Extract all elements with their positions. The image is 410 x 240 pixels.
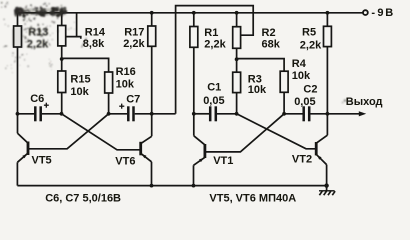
node L2: C7 left / R16 bottom bbox=[107, 112, 111, 116]
svg-text:2,2k: 2,2k bbox=[27, 39, 49, 51]
resistor R2 bbox=[235, 11, 239, 15]
node L1: C6 right / R15 bottom bbox=[60, 112, 64, 116]
wire: R13 bottom to VT5 collector bbox=[17, 47, 19, 133]
svg-text:R15: R15 bbox=[70, 74, 90, 86]
wire: cross-coupling L1 to VT6 base bbox=[62, 114, 141, 150]
resistor R4 bbox=[280, 71, 288, 92]
svg-text:C1: C1 bbox=[207, 81, 221, 93]
capacitor C7 bbox=[109, 113, 128, 115]
resistor R1 bbox=[192, 11, 196, 15]
wire: R2 junction to R4 top bbox=[237, 59, 285, 72]
node: R14 bottom junction bbox=[60, 57, 64, 61]
svg-text:VT1: VT1 bbox=[213, 155, 233, 167]
svg-text:VT2: VT2 bbox=[292, 154, 312, 166]
svg-text:2,2k: 2,2k bbox=[300, 39, 322, 51]
wire: cross-coupling R2p to VT2 base bbox=[237, 114, 317, 149]
svg-text:С6, С7 5,0/16В: С6, С7 5,0/16В bbox=[45, 193, 121, 205]
wire: cross-coupling R3p to VT1 base bbox=[205, 114, 284, 152]
transistor VT5 bbox=[27, 142, 30, 156]
resistor R3 bbox=[233, 72, 241, 92]
transistor VT1 bbox=[203, 144, 206, 158]
scan artifact marks bbox=[82, 38, 347, 103]
svg-text:2,2k: 2,2k bbox=[123, 38, 145, 50]
svg-text:2,2k: 2,2k bbox=[204, 39, 226, 51]
node: C6 left / VT5 collector bbox=[16, 112, 20, 116]
svg-text:R16: R16 bbox=[116, 66, 136, 78]
resistor R14 bbox=[60, 11, 64, 15]
svg-text:C2: C2 bbox=[303, 83, 317, 95]
svg-text:R17: R17 bbox=[124, 27, 144, 39]
svg-text:В: В bbox=[385, 7, 393, 19]
wire: bottom emitter rail bbox=[17, 185, 326, 187]
svg-text:R5: R5 bbox=[302, 27, 316, 39]
svg-text:10k: 10k bbox=[70, 86, 89, 98]
resistor R15 bbox=[58, 71, 66, 93]
wire: R17 bottom to VT6 collector bbox=[151, 46, 153, 136]
wire: tap from bus A to R14 body bbox=[66, 13, 77, 37]
svg-text:R2: R2 bbox=[262, 27, 276, 39]
node: output / C2 right on VT2 collector column bbox=[326, 112, 330, 116]
wire: R14 junction to R16 top bbox=[62, 58, 109, 72]
transistor VT2 bbox=[315, 142, 318, 155]
resistor R13 bbox=[17, 13, 19, 26]
transistor VT6 bbox=[139, 142, 142, 156]
svg-text:R14: R14 bbox=[85, 27, 106, 39]
terminal -9V bbox=[363, 10, 368, 15]
ground bbox=[326, 186, 328, 191]
svg-text:VT6: VT6 bbox=[115, 156, 135, 168]
svg-text:R4: R4 bbox=[292, 58, 307, 70]
wire: R5 bottom to VT2 collector bbox=[326, 47, 328, 136]
svg-text:-: - bbox=[371, 7, 375, 19]
resistor R5 bbox=[326, 11, 330, 15]
svg-text:68k: 68k bbox=[262, 39, 281, 51]
svg-text:C7: C7 bbox=[126, 94, 140, 106]
smudge noise top-left bbox=[1, 2, 77, 74]
svg-text:8,8k: 8,8k bbox=[83, 38, 105, 50]
node: C1 left / VT1 collector bbox=[192, 112, 196, 116]
label R13 value (smudged) bbox=[27, 26, 49, 50]
capacitor C6 bbox=[18, 113, 35, 115]
wire: output arrow bbox=[327, 113, 360, 115]
svg-text:10k: 10k bbox=[292, 70, 311, 82]
capacitor C1 bbox=[194, 113, 209, 115]
wire: R1 bottom to VT1 collector bbox=[193, 47, 195, 136]
node R2p: C1 right / R3 bottom bbox=[235, 112, 239, 116]
resistor R17 bbox=[150, 11, 154, 15]
svg-text:VT5, VT6 МП40А: VT5, VT6 МП40А bbox=[209, 192, 296, 204]
resistor R16 bbox=[105, 72, 113, 93]
capacitor C2 bbox=[284, 113, 302, 115]
svg-text:0,05: 0,05 bbox=[294, 96, 315, 108]
svg-text:9: 9 bbox=[377, 7, 383, 19]
svg-text:10k: 10k bbox=[248, 84, 267, 96]
wire: top -9V bus A bbox=[18, 12, 363, 14]
wire: cross-coupling L2 to VT5 base bbox=[28, 114, 109, 149]
svg-text:0,05: 0,05 bbox=[203, 95, 224, 107]
node: R2 bottom junction bbox=[235, 57, 239, 61]
wire: bus B from VT6 collector node to R2 tap bbox=[176, 6, 254, 114]
svg-text:R1: R1 bbox=[204, 27, 218, 39]
node: C7 right on VT6 collector column bbox=[150, 112, 154, 116]
svg-text:VT5: VT5 bbox=[32, 154, 52, 166]
node R3p: C2 left / R4 bottom bbox=[282, 112, 286, 116]
svg-text:10k: 10k bbox=[116, 79, 135, 91]
svg-text:Выход: Выход bbox=[346, 96, 383, 108]
svg-text:C6: C6 bbox=[30, 93, 44, 105]
